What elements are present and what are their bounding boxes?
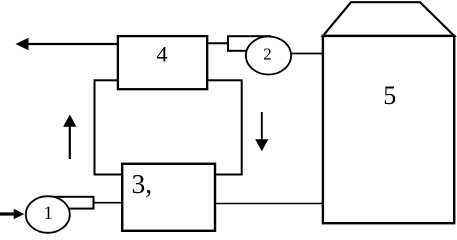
arrowhead: up arrow <box>63 115 76 127</box>
wire: inlet arrow shaft into pump 1 <box>0 212 14 215</box>
svg-text:5: 5 <box>383 81 396 110</box>
arrowhead: down arrow <box>255 139 268 151</box>
up arrow shaft <box>69 124 71 159</box>
wire: outlet arrow shaft from box 4 to left <box>28 43 118 45</box>
down arrow shaft <box>261 112 263 141</box>
svg-text:1: 1 <box>44 204 53 224</box>
wire: pump 2 to vessel 5 <box>290 53 324 55</box>
wire: box 3 to vessel 5 <box>215 203 324 205</box>
arrowhead: left-pointing outlet arrow <box>16 38 29 51</box>
box 3 <box>122 164 215 231</box>
svg-text:3,: 3, <box>132 168 153 199</box>
pump circle 2 <box>246 37 291 75</box>
wire: loop rectangle between 4 and 3 <box>95 80 242 174</box>
vessel 5 roof <box>323 2 454 36</box>
svg-text:4: 4 <box>156 42 167 67</box>
pump connector rect P2 <box>228 36 270 51</box>
box 4 <box>118 36 207 89</box>
wire: pump 1 to box 3 <box>94 202 122 204</box>
svg-text:2: 2 <box>263 45 272 64</box>
wire: box 4 to pump 2 connector <box>207 42 230 44</box>
vessel 5 body <box>323 36 454 223</box>
vessel 5 top edge <box>322 35 456 37</box>
arrowhead: inlet arrow <box>14 209 25 220</box>
pump connector rect P1 <box>44 197 94 209</box>
pump circle 1 <box>26 196 70 233</box>
